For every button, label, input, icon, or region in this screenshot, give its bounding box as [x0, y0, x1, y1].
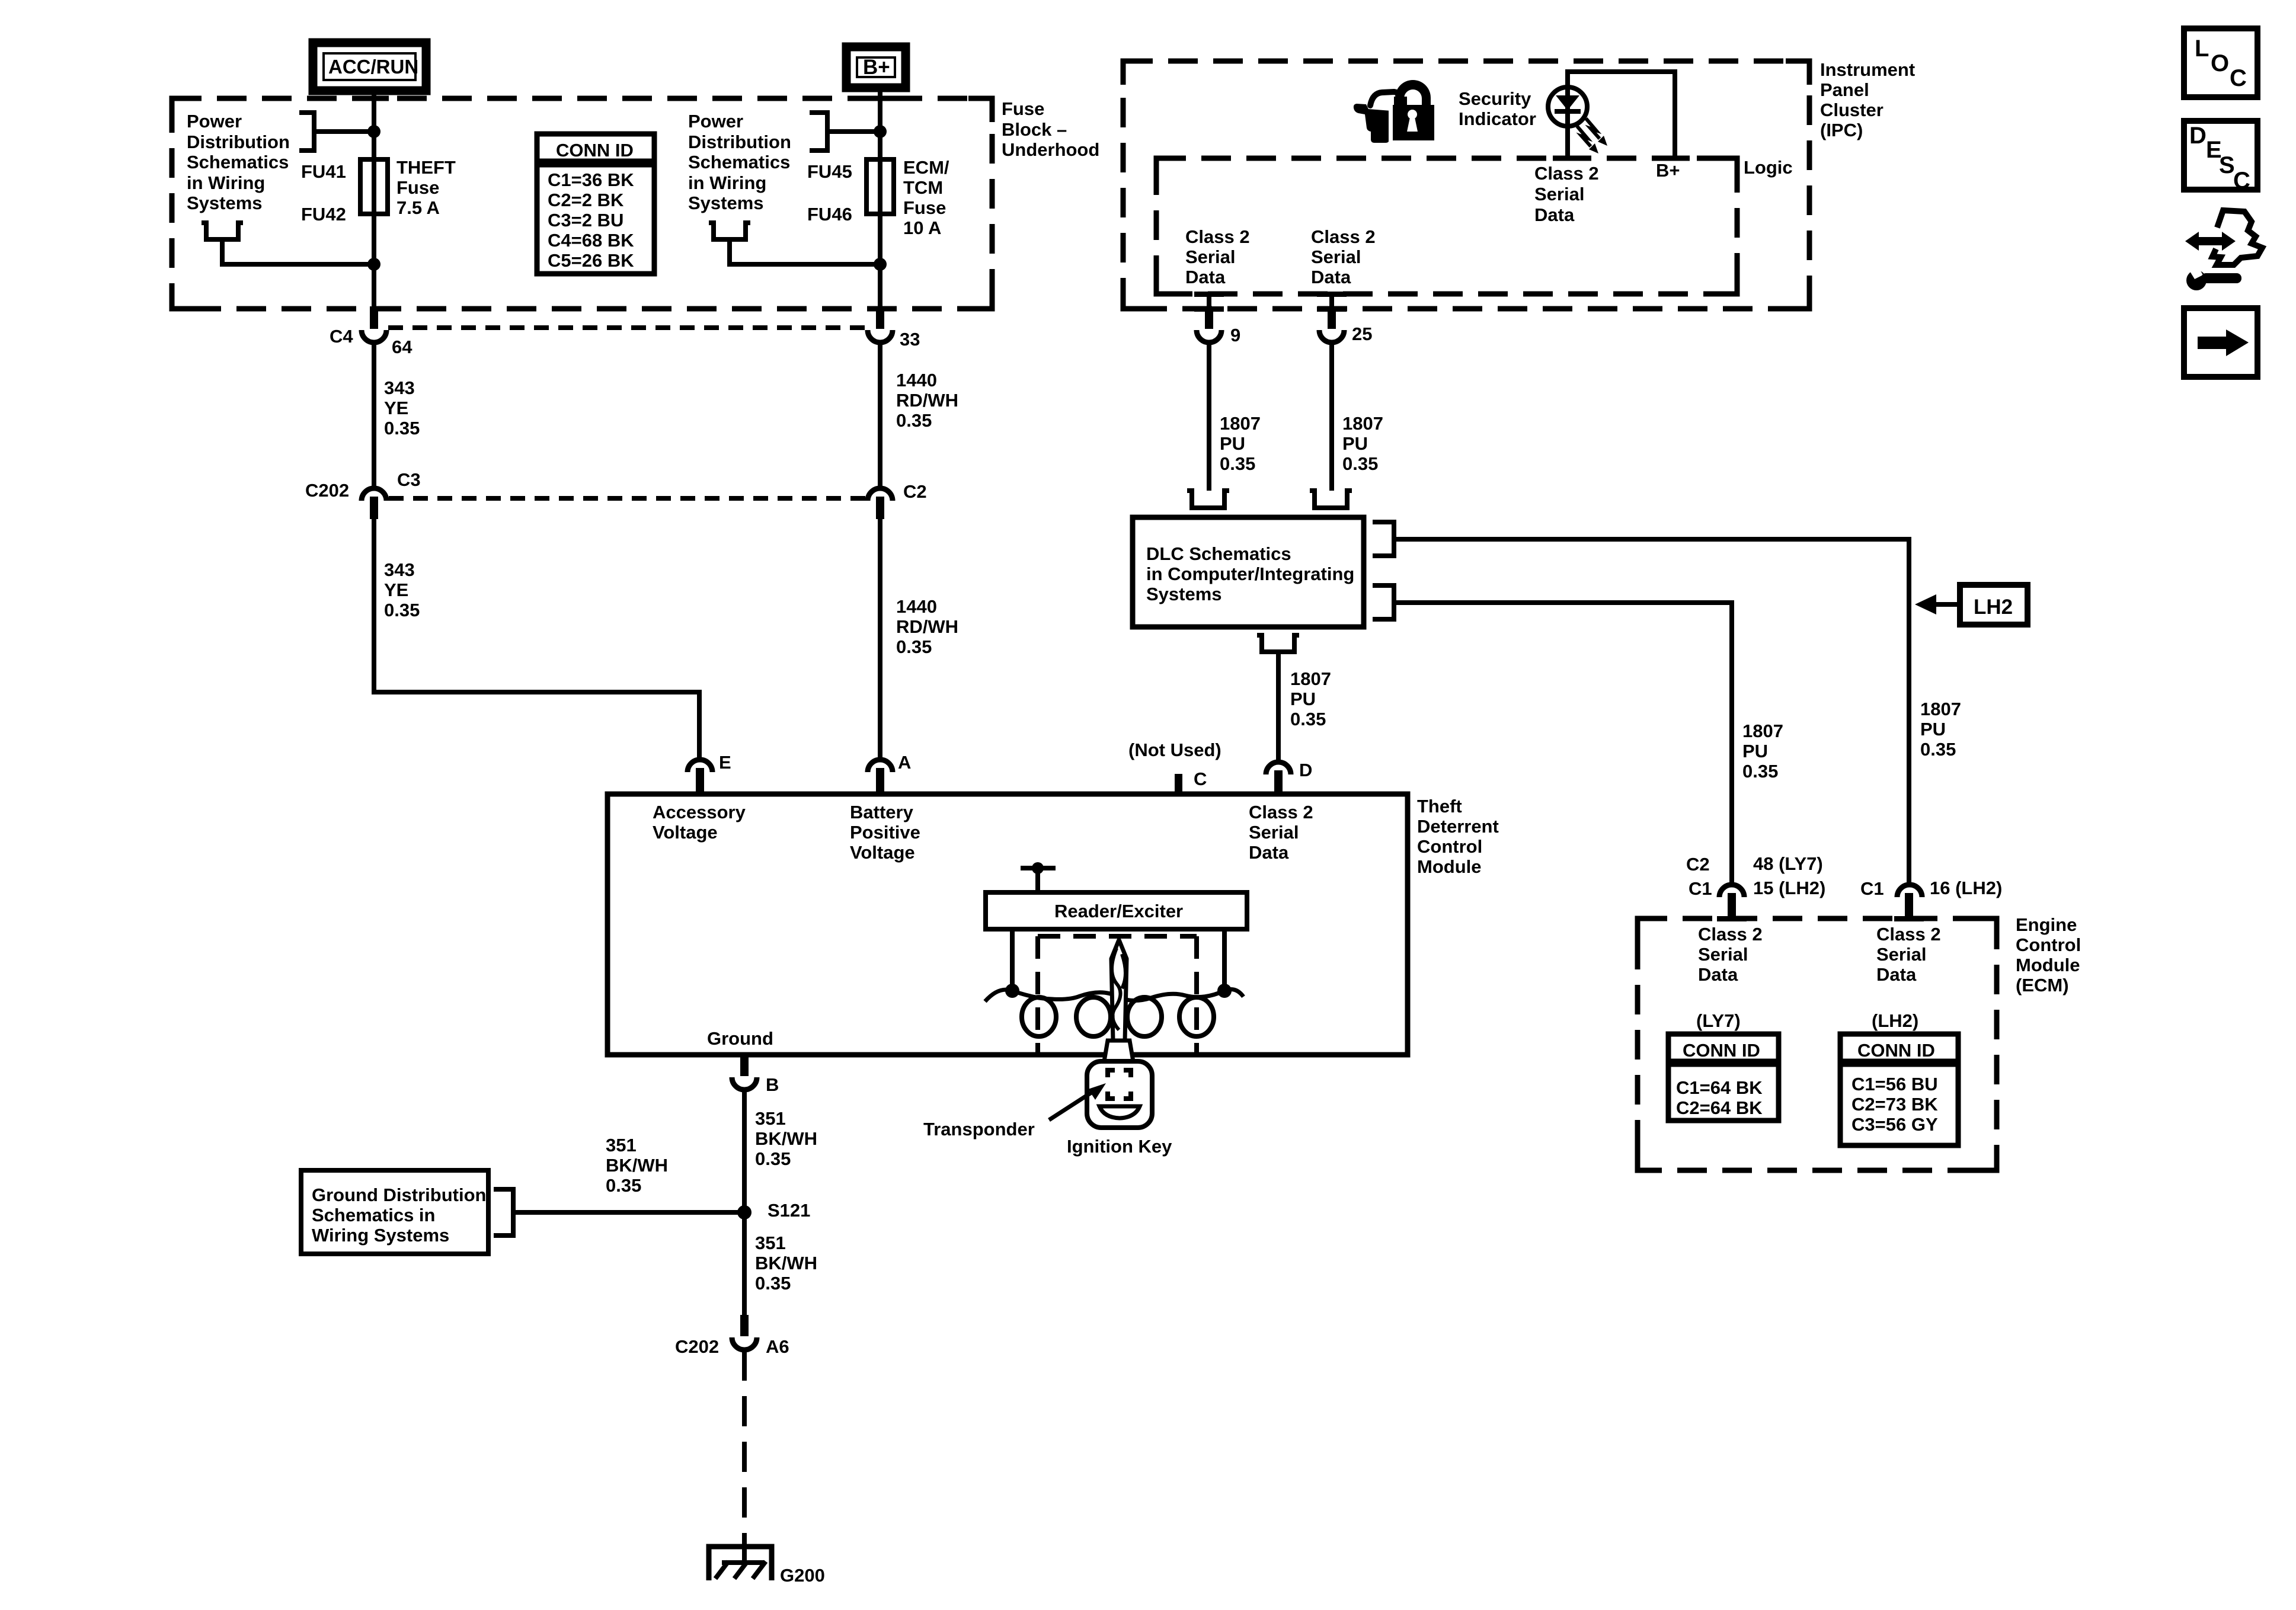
svg-text:(ECM): (ECM)	[2016, 975, 2069, 996]
svg-text:B: B	[766, 1074, 779, 1095]
svg-text:Serial: Serial	[1311, 247, 1361, 267]
svg-text:Serial: Serial	[1534, 184, 1584, 204]
wire bracket down and right to main wire	[730, 239, 880, 264]
svg-text:C3: C3	[397, 469, 421, 490]
svg-text:0.35: 0.35	[1290, 709, 1326, 729]
ignition key head	[1087, 1061, 1152, 1128]
svg-text:ECM/: ECM/	[903, 157, 949, 178]
svg-text:C: C	[2233, 168, 2250, 194]
svg-text:Class 2: Class 2	[1249, 802, 1313, 822]
svg-text:Systems: Systems	[688, 193, 764, 213]
label 1440 RD/WH 0.35	[896, 370, 958, 431]
wire ACC/RUN down to fuse	[372, 91, 376, 162]
wire S121 down to C202 A6	[742, 1212, 747, 1316]
box Ground Distribution Schematics	[301, 1170, 488, 1254]
svg-text:Class 2: Class 2	[1698, 924, 1763, 945]
svg-text:0.35: 0.35	[1920, 739, 1956, 760]
svg-text:G200: G200	[780, 1565, 825, 1586]
icon arrow box	[2184, 308, 2257, 377]
ignition key blade	[1111, 940, 1127, 1041]
dashed wire down to G200	[742, 1350, 747, 1561]
svg-text:Serial: Serial	[1876, 944, 1926, 965]
svg-text:Engine: Engine	[2016, 914, 2077, 935]
icon LOC box	[2184, 28, 2257, 97]
corner dashes ECM	[1638, 918, 1997, 1170]
arrow transponder	[1049, 1083, 1106, 1120]
svg-text:10 A: 10 A	[903, 217, 941, 238]
svg-text:Power: Power	[187, 111, 242, 132]
icon diagnostic (arrow, outline, wrench)	[2185, 210, 2262, 290]
wire DLC to ECM C2/C1 48/15	[1394, 603, 1732, 882]
corner dashes fuse block	[172, 98, 992, 309]
dashed box Logic	[1156, 158, 1737, 294]
svg-text:Voltage: Voltage	[653, 822, 718, 843]
svg-text:0.35: 0.35	[384, 600, 420, 620]
dash at wire crossing ECM top (left conn)	[1717, 916, 1747, 921]
svg-text:E: E	[719, 752, 731, 773]
arrow from LH2	[1915, 594, 1936, 614]
svg-text:CONN ID: CONN ID	[1683, 1040, 1760, 1061]
svg-text:Theft: Theft	[1417, 796, 1462, 817]
wire C4 to C202	[372, 343, 376, 486]
coil loop 3	[1127, 997, 1162, 1036]
bracket under Systems (right)	[709, 223, 750, 239]
svg-text:FU45: FU45	[807, 161, 852, 182]
bracket left power distribution	[299, 113, 314, 151]
wire bracket to FU45 wire	[827, 129, 880, 134]
svg-text:Schematics: Schematics	[187, 152, 289, 172]
dash at B+ wire crossing fuse box top	[865, 96, 895, 101]
svg-text:0.35: 0.35	[896, 636, 932, 657]
label 351 BK/WH 0.35 (lower)	[755, 1233, 817, 1294]
svg-text:0.35: 0.35	[1220, 453, 1255, 474]
svg-text:Data: Data	[1698, 964, 1738, 985]
wire LED cathode down to logic box	[1565, 126, 1570, 158]
svg-text:Class 2: Class 2	[1311, 226, 1376, 247]
label THEFT Fuse 7.5 A	[396, 157, 456, 218]
svg-text:A6: A6	[766, 1336, 789, 1357]
svg-text:C1: C1	[1860, 878, 1884, 899]
svg-text:Transponder: Transponder	[923, 1119, 1035, 1140]
label 1440 RD/WH 0.35 (2nd)	[896, 596, 958, 657]
connector D	[1266, 762, 1291, 794]
connector C202 A6	[732, 1315, 757, 1350]
svg-text:C202: C202	[305, 480, 349, 501]
CONN ID table fuse block	[537, 134, 654, 274]
wire pin 9 down to DLC bracket	[1207, 343, 1211, 491]
junction dot	[874, 125, 887, 138]
coil loop 1	[1022, 997, 1056, 1036]
pin C stub (not used)	[1175, 774, 1182, 794]
svg-text:351: 351	[755, 1233, 786, 1253]
label Class 2 Serial Data (pin 9)	[1185, 226, 1250, 287]
label Class 2 Serial Data (at LED)	[1534, 163, 1599, 225]
svg-text:Data: Data	[1534, 204, 1575, 225]
dash at wire crossing IPC bottom (pin 25)	[1317, 306, 1347, 312]
svg-text:C: C	[1194, 769, 1207, 789]
svg-text:D: D	[2189, 123, 2207, 149]
label Class 2 Serial Data (TDCM)	[1249, 802, 1313, 863]
svg-text:Data: Data	[1311, 267, 1351, 287]
svg-text:Block –: Block –	[1002, 119, 1067, 140]
svg-text:15 (LH2): 15 (LH2)	[1753, 878, 1825, 898]
bracket right power distribution	[810, 113, 827, 151]
svg-text:Logic: Logic	[1744, 157, 1793, 178]
wire reader left leg	[1010, 929, 1015, 991]
svg-text:FU41: FU41	[301, 161, 346, 182]
svg-text:Control: Control	[2016, 934, 2081, 955]
dashed key sensing box	[1038, 936, 1197, 1052]
svg-text:351: 351	[606, 1135, 637, 1156]
svg-text:Indicator: Indicator	[1459, 108, 1536, 129]
svg-text:L: L	[2195, 36, 2209, 62]
coil wavy line	[985, 990, 1243, 1001]
svg-text:9: 9	[1230, 325, 1240, 345]
svg-text:PU: PU	[1220, 433, 1245, 454]
connector E	[687, 760, 712, 794]
svg-text:DLC Schematics: DLC Schematics	[1146, 543, 1291, 564]
svg-text:Systems: Systems	[1146, 584, 1222, 604]
transponder marks in key head	[1108, 1070, 1131, 1099]
svg-text:Wiring Systems: Wiring Systems	[312, 1225, 449, 1246]
wire fuse down to pin 33	[878, 214, 882, 309]
svg-text:Serial: Serial	[1698, 944, 1748, 965]
svg-text:Module: Module	[2016, 955, 2080, 975]
wire bracket to S121	[513, 1210, 744, 1215]
svg-text:PU: PU	[1742, 741, 1768, 761]
svg-text:PU: PU	[1342, 433, 1368, 454]
svg-text:Class 2: Class 2	[1876, 924, 1941, 945]
connector pin 25	[1319, 294, 1344, 343]
label Class 2 Serial Data (pin 25)	[1311, 226, 1376, 287]
wire fuse down to C4 pin	[372, 214, 376, 309]
label Ground Distribution Schematics in Wiring Systems	[312, 1185, 486, 1246]
svg-text:C2=73 BK: C2=73 BK	[1851, 1094, 1938, 1115]
svg-text:RD/WH: RD/WH	[896, 390, 958, 411]
junction dot left coil	[1005, 984, 1019, 998]
wire B+ down to fuse	[878, 88, 882, 162]
svg-text:YE: YE	[384, 580, 408, 600]
svg-text:C4=68 BK: C4=68 BK	[548, 230, 634, 251]
svg-text:0.35: 0.35	[1342, 453, 1378, 474]
wire LED anode up and right to B+ entry	[1568, 72, 1675, 158]
label Instrument Panel Cluster (IPC)	[1820, 59, 1915, 140]
svg-text:O: O	[2211, 50, 2229, 76]
lightning arrows of LED	[1577, 119, 1607, 153]
connector face dotted line C202 row	[389, 496, 865, 501]
svg-text:BK/WH: BK/WH	[755, 1128, 817, 1149]
svg-text:Schematics: Schematics	[688, 152, 790, 172]
svg-text:Data: Data	[1185, 267, 1226, 287]
key ring slot	[1099, 1106, 1140, 1118]
junction dot	[874, 258, 887, 271]
svg-text:TCM: TCM	[903, 177, 943, 198]
svg-text:(LH2): (LH2)	[1872, 1010, 1918, 1031]
connector C2/C1 ECM	[1719, 885, 1744, 921]
svg-text:C4: C4	[330, 326, 353, 347]
bracket under Systems (left)	[202, 223, 243, 239]
label Class 2 Serial Data (ECM right)	[1876, 924, 1941, 985]
svg-text:B+: B+	[1656, 160, 1680, 181]
svg-text:C1: C1	[1689, 878, 1712, 899]
antenna tap above reader	[1021, 862, 1056, 892]
svg-text:(Not Used): (Not Used)	[1128, 740, 1221, 760]
svg-text:Battery: Battery	[850, 802, 914, 822]
label 1807 PU 0.35 (to D)	[1290, 668, 1331, 729]
connector A	[868, 760, 893, 794]
coil loop 4	[1179, 997, 1214, 1036]
svg-text:LH2: LH2	[1974, 596, 2013, 619]
svg-text:Distribution: Distribution	[688, 132, 791, 152]
label 343 YE 0.35 (2nd)	[384, 559, 420, 620]
CONN ID table LY7	[1668, 1034, 1779, 1121]
svg-text:64: 64	[392, 337, 412, 357]
svg-text:FU42: FU42	[301, 204, 346, 225]
svg-text:C3=2 BU: C3=2 BU	[548, 210, 623, 231]
label Theft Deterrent Control Module	[1417, 796, 1499, 877]
svg-text:C2=2 BK: C2=2 BK	[548, 190, 624, 210]
wire B down to S121	[742, 1090, 747, 1212]
svg-text:in Wiring: in Wiring	[688, 172, 766, 193]
svg-text:Data: Data	[1876, 964, 1917, 985]
wire bracket down and right to main wire	[222, 239, 374, 264]
label 351 BK/WH 0.35 (left horizontal)	[606, 1135, 668, 1196]
svg-text:33: 33	[900, 329, 920, 350]
svg-text:1440: 1440	[896, 596, 937, 617]
svg-text:1807: 1807	[1342, 413, 1383, 434]
label power distribution schematics (left)	[187, 111, 290, 213]
svg-text:Underhood: Underhood	[1002, 139, 1099, 160]
connector C1 ECM right	[1897, 885, 1922, 921]
wire 33 to C2	[878, 343, 882, 486]
svg-text:A: A	[898, 752, 911, 773]
svg-text:Voltage: Voltage	[850, 842, 915, 863]
svg-text:1807: 1807	[1742, 721, 1783, 741]
svg-text:Class 2: Class 2	[1185, 226, 1250, 247]
dash at wire crossing IPC bottom (pin 9)	[1194, 306, 1224, 312]
connector C202 C3	[362, 488, 386, 519]
CONN ID table LH2	[1840, 1034, 1958, 1145]
svg-text:S121: S121	[768, 1200, 810, 1221]
svg-text:0.35: 0.35	[1742, 761, 1778, 782]
svg-text:C3=56 GY: C3=56 GY	[1851, 1114, 1938, 1135]
dashed box Fuse Block - Underhood	[172, 98, 992, 309]
svg-text:Security: Security	[1459, 88, 1531, 109]
svg-text:Serial: Serial	[1249, 822, 1299, 843]
label DLC Schematics in Computer/Integrating Systems	[1146, 543, 1354, 604]
svg-text:Data: Data	[1249, 842, 1289, 863]
svg-text:Deterrent: Deterrent	[1417, 816, 1499, 837]
svg-text:Panel: Panel	[1820, 79, 1869, 100]
label Accessory Voltage	[653, 802, 746, 843]
svg-text:YE: YE	[384, 398, 408, 418]
svg-text:Accessory: Accessory	[653, 802, 746, 822]
svg-text:(IPC): (IPC)	[1820, 120, 1863, 140]
wire DLC down to D	[1276, 652, 1281, 760]
svg-text:C1=64 BK: C1=64 BK	[1676, 1077, 1763, 1098]
svg-text:0.35: 0.35	[896, 410, 932, 431]
ground symbol G200	[709, 1547, 772, 1580]
svg-text:S: S	[2219, 152, 2235, 178]
junction dot	[367, 125, 380, 138]
LED security indicator	[1548, 87, 1587, 126]
wire bracket to FU41 wire	[314, 129, 374, 134]
svg-text:THEFT: THEFT	[396, 157, 456, 178]
svg-text:Positive: Positive	[850, 822, 920, 843]
dash at wire crossing logic bottom (pin 25)	[1317, 292, 1347, 297]
connector B below TDCM	[732, 1055, 757, 1090]
wire pin 25 down to DLC bracket	[1329, 343, 1334, 491]
wire C2 down to A	[878, 519, 882, 758]
svg-text:Class 2: Class 2	[1534, 163, 1599, 184]
fuse FU45/FU46 ECM/TCM	[866, 159, 894, 214]
svg-text:Ground Distribution: Ground Distribution	[312, 1185, 486, 1205]
svg-text:343: 343	[384, 559, 415, 580]
dashed box ECM	[1638, 918, 1997, 1170]
connector 33 pin	[868, 306, 893, 343]
connector face dotted line C4 row	[388, 325, 866, 330]
svg-text:1440: 1440	[896, 370, 937, 391]
label Fuse Block - Underhood	[1002, 98, 1099, 160]
dash at wire crossing logic bottom (pin 9)	[1194, 292, 1224, 297]
svg-text:25: 25	[1352, 324, 1372, 344]
svg-text:Ground: Ground	[707, 1028, 773, 1049]
bracket DLC input left	[1187, 491, 1229, 508]
label 351 BK/WH 0.35 (upper)	[755, 1108, 817, 1169]
label 343 YE 0.35	[384, 377, 420, 438]
label 1807 PU 0.35 (right wire to C1 16)	[1920, 699, 1961, 760]
svg-text:Serial: Serial	[1185, 247, 1235, 267]
svg-text:in Wiring: in Wiring	[187, 172, 265, 193]
svg-text:C2: C2	[1686, 854, 1710, 875]
svg-text:1807: 1807	[1220, 413, 1261, 434]
box Reader/Exciter	[986, 892, 1247, 929]
svg-text:FU46: FU46	[807, 204, 852, 225]
svg-text:Fuse: Fuse	[903, 197, 946, 218]
svg-text:CONN ID: CONN ID	[556, 140, 634, 161]
label Class 2 Serial Data (ECM left)	[1698, 924, 1763, 985]
dash at wire crossing ECM top (right conn)	[1894, 916, 1924, 921]
junction S121	[737, 1205, 752, 1219]
coil loop 2	[1076, 997, 1111, 1036]
svg-text:CONN ID: CONN ID	[1857, 1040, 1935, 1061]
label Security Indicator	[1459, 88, 1536, 129]
label ECM/TCM Fuse 10 A	[903, 157, 949, 238]
svg-text:PU: PU	[1290, 689, 1316, 709]
dash at B+ wire crossing logic top	[1660, 156, 1690, 161]
connector C2	[868, 488, 893, 519]
svg-text:C1=56 BU: C1=56 BU	[1851, 1074, 1938, 1094]
svg-text:0.35: 0.35	[755, 1273, 791, 1294]
svg-text:BK/WH: BK/WH	[755, 1253, 817, 1273]
svg-text:0.35: 0.35	[384, 418, 420, 438]
box theft deterrent control module	[607, 794, 1408, 1055]
svg-text:343: 343	[384, 377, 415, 398]
svg-text:351: 351	[755, 1108, 786, 1129]
connector pin 9	[1197, 294, 1221, 343]
svg-text:Cluster: Cluster	[1820, 100, 1884, 120]
svg-text:Fuse: Fuse	[1002, 98, 1044, 119]
svg-text:C: C	[2230, 65, 2247, 91]
fuse FU41/FU42 THEFT	[360, 159, 388, 214]
label 1807 PU 0.35 (right)	[1342, 413, 1383, 474]
svg-text:1807: 1807	[1920, 699, 1961, 719]
corner dashes Logic	[1156, 158, 1737, 294]
svg-text:PU: PU	[1920, 719, 1946, 740]
svg-text:0.35: 0.35	[755, 1148, 791, 1169]
svg-text:B+: B+	[863, 56, 890, 79]
icon car with padlock (security)	[1354, 80, 1434, 143]
bracket DLC output top right	[1373, 522, 1394, 556]
svg-text:Control: Control	[1417, 836, 1482, 857]
dash at LED wire crossing logic top	[1553, 156, 1582, 161]
label 1807 PU 0.35 (wire to C2/C1)	[1742, 721, 1783, 782]
svg-text:Module: Module	[1417, 856, 1482, 877]
svg-text:7.5 A: 7.5 A	[396, 197, 440, 218]
corner dashes IPC	[1123, 61, 1809, 309]
box LH2	[1960, 585, 2028, 625]
svg-text:Power: Power	[688, 111, 743, 132]
svg-text:1807: 1807	[1290, 668, 1331, 689]
svg-text:Systems: Systems	[187, 193, 263, 213]
wire reader right leg	[1222, 929, 1227, 991]
svg-text:C202: C202	[675, 1336, 719, 1357]
bracket DLC input right	[1310, 491, 1352, 508]
svg-text:0.35: 0.35	[606, 1175, 641, 1196]
svg-text:Instrument: Instrument	[1820, 59, 1915, 80]
junction dot	[367, 258, 380, 271]
svg-text:C2: C2	[903, 481, 927, 502]
svg-text:48 (LY7): 48 (LY7)	[1753, 853, 1823, 874]
wire DLC to ECM C1 16	[1394, 539, 1909, 882]
svg-text:C2=64 BK: C2=64 BK	[1676, 1097, 1763, 1118]
svg-text:Ignition Key: Ignition Key	[1067, 1136, 1172, 1157]
terminal box B+	[846, 47, 906, 88]
bracket ground distribution	[494, 1189, 513, 1235]
terminal box ACC/RUN	[313, 43, 426, 91]
connector C4 pin 64	[362, 306, 386, 343]
dash at ACC/RUN wire crossing fuse box top	[359, 96, 389, 101]
svg-text:C1=36 BK: C1=36 BK	[548, 169, 634, 190]
svg-text:Fuse: Fuse	[396, 177, 439, 198]
svg-text:BK/WH: BK/WH	[606, 1155, 668, 1176]
bracket DLC output bottom	[1257, 635, 1299, 652]
ignition key neck	[1104, 1041, 1133, 1061]
svg-text:16 (LH2): 16 (LH2)	[1930, 878, 2002, 898]
svg-text:D: D	[1299, 760, 1312, 780]
label Engine Control Module (ECM)	[2016, 914, 2081, 996]
svg-text:Schematics in: Schematics in	[312, 1205, 435, 1225]
svg-text:RD/WH: RD/WH	[896, 616, 958, 637]
svg-text:Reader/Exciter: Reader/Exciter	[1054, 901, 1183, 921]
bracket DLC output bottom right	[1373, 585, 1394, 619]
svg-text:in Computer/Integrating: in Computer/Integrating	[1146, 564, 1354, 584]
junction dot right coil	[1217, 984, 1232, 998]
svg-text:C5=26 BK: C5=26 BK	[548, 250, 634, 271]
svg-text:Distribution: Distribution	[187, 132, 290, 152]
wire C202 down to corner to E	[374, 519, 699, 758]
svg-text:(LY7): (LY7)	[1696, 1010, 1741, 1031]
label 1807 PU 0.35 (left)	[1220, 413, 1261, 474]
label Battery Positive Voltage	[850, 802, 920, 863]
label power distribution schematics (right)	[688, 111, 791, 213]
dashed box IPC	[1123, 61, 1809, 309]
box DLC Schematics	[1133, 517, 1364, 627]
svg-text:ACC/RUN: ACC/RUN	[328, 56, 418, 78]
icon DESC box	[2184, 121, 2257, 194]
